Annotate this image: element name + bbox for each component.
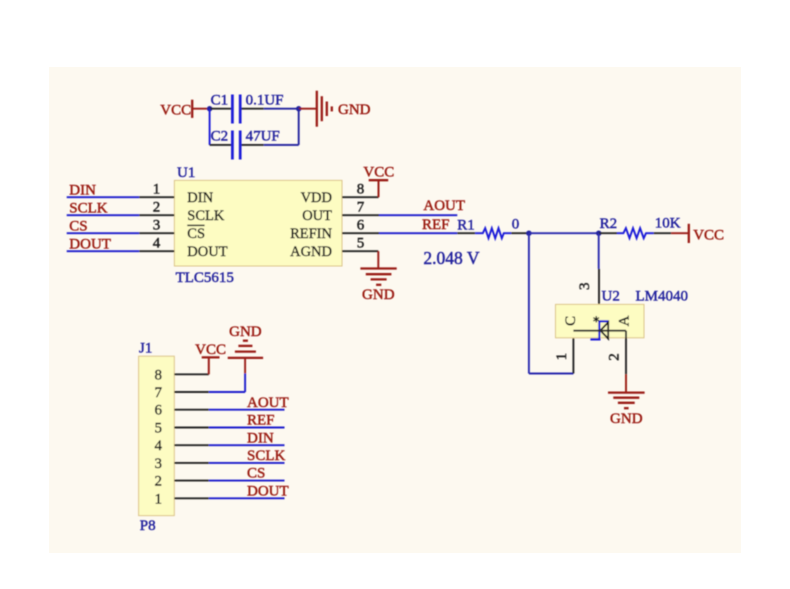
wire node R2 down [598,233,600,269]
pin 1 J1 [155,491,209,507]
svg-text:R2: R2 [600,216,618,232]
node AOUT net (J1) [209,395,289,411]
wire C2 to right vertical [264,144,299,146]
svg-text:2.048 V: 2.048 V [423,248,479,268]
svg-text:7: 7 [357,200,365,216]
power VCC (right) [689,224,724,244]
connector J1 [139,341,175,534]
svg-text:OUT: OUT [302,208,332,224]
svg-text:3: 3 [155,456,163,472]
power VCC (top-left) [160,100,192,119]
svg-text:C: C [563,316,579,326]
wire pin5 down (red) [377,251,379,268]
svg-text:CS: CS [247,466,265,482]
ground (below U2) [608,393,645,427]
svg-text:VCC: VCC [195,342,226,358]
resistor R2 [599,216,672,238]
svg-text:2: 2 [153,200,161,216]
svg-text:VCC: VCC [363,165,394,181]
capacitor C1 [211,93,241,124]
wire right vertical up to node [298,109,300,145]
wire node to C1 left plate [210,108,232,110]
wire left vertical to C2 branch [209,109,211,145]
svg-text:3: 3 [577,283,593,291]
pin 4 U1 [139,236,174,252]
svg-text:DIN: DIN [69,182,96,198]
wire to right node [264,108,299,110]
svg-text:6: 6 [155,403,163,419]
wire to U2 pin1 (horizontal) [529,373,574,375]
svg-text:3: 3 [153,218,161,234]
pin 3 U1 [139,218,174,234]
svg-text:DOUT: DOUT [69,236,111,252]
pin 5 J1 [155,421,209,437]
svg-text:C1: C1 [211,93,229,109]
node DIN net (left) [67,182,140,198]
node junction right of C1 [296,106,301,111]
wire pin7 to ground riser [209,358,245,392]
pin names U1 left side [187,190,227,260]
svg-text:GND: GND [338,102,371,118]
svg-text:10K: 10K [655,216,681,232]
node DOUT net (J1) [209,483,289,499]
pin 1 U1 [139,182,174,198]
power VCC (pin 8) [363,165,394,198]
svg-text:P8: P8 [140,518,156,534]
svg-text:5: 5 [155,421,163,437]
svg-text:SCLK: SCLK [69,200,108,216]
wire node 0 to node R2 [529,232,599,234]
zener cathode bar [590,321,608,339]
pin 3 U2 [577,269,599,322]
svg-text:U2: U2 [602,288,620,304]
wire node to GND (red) [299,108,317,110]
svg-text:DOUT: DOUT [247,483,289,499]
svg-text:REF: REF [422,217,450,233]
svg-text:0: 0 [512,216,520,232]
power VCC (J1) [195,342,226,374]
diode U2 (LM4040 body) [556,288,645,338]
svg-text:U1: U1 [177,165,195,181]
node REF net [379,217,457,233]
svg-text:GND: GND [229,324,262,340]
svg-text:2: 2 [607,353,623,361]
svg-text:A: A [617,315,633,326]
svg-text:AOUT: AOUT [247,395,289,411]
svg-text:2: 2 [155,474,163,490]
svg-text:6: 6 [357,218,365,234]
pin 2 J1 [155,474,209,490]
node CS net (J1) [209,466,285,482]
node above U2 [596,231,601,236]
pin names U1 right side [290,190,332,260]
svg-text:LM4040: LM4040 [636,288,689,304]
wire C2 right plate [242,144,264,146]
ground (inverted, J1) [228,324,263,358]
svg-text:REFIN: REFIN [290,226,332,242]
pin 8 U1 (VDD) [342,182,379,198]
svg-text:VDD: VDD [301,190,332,206]
svg-text:CS: CS [69,218,87,234]
wire R2 to VCC (red) [671,232,689,234]
svg-text:SCLK: SCLK [187,208,225,224]
ground (below U1) [360,269,396,304]
capacitor C2 [211,128,241,159]
pin 6 J1 [155,403,209,419]
zener asterisk [593,316,599,322]
pin 2 U2 [607,331,627,375]
pin 1 U2 [554,331,574,374]
svg-text:C2: C2 [211,128,229,144]
pin 7 J1 [155,385,209,401]
pin 8 J1 [155,367,209,383]
wire pin2 to ground (red) [625,374,627,392]
svg-text:TLC5615: TLC5615 [176,270,234,286]
node SCLK net (J1) [209,448,286,464]
pin 6 U1 (REFIN) [342,218,379,234]
pin 2 U1 [139,200,174,216]
svg-text:DIN: DIN [247,430,274,446]
svg-text:0.1UF: 0.1UF [246,93,284,109]
svg-text:SCLK: SCLK [247,448,286,464]
node REF net (J1) [209,413,285,429]
svg-text:1: 1 [155,491,163,507]
ground (sideways, top) [317,91,371,127]
svg-text:DIN: DIN [187,190,213,206]
wire through diode [573,330,626,332]
svg-text:7: 7 [155,385,163,401]
node DOUT net (left) [67,236,140,252]
svg-text:AGND: AGND [290,244,332,260]
svg-text:47UF: 47UF [246,128,280,144]
node SCLK net (left) [67,200,140,216]
svg-text:5: 5 [357,236,365,252]
resistor R1 [457,218,529,239]
diode triangle [600,322,608,338]
svg-text:VCC: VCC [160,103,191,119]
wire VCC to node (red) [191,108,210,110]
svg-text:4: 4 [153,236,161,252]
svg-text:1: 1 [153,182,161,198]
wire to C2 left plate [210,144,232,146]
svg-text:DOUT: DOUT [187,244,227,260]
svg-text:8: 8 [155,367,163,383]
wire C1 right plate to blue [242,108,264,110]
node AOUT net [379,198,465,215]
svg-text:CS: CS [187,226,205,242]
node CS net (left) [67,218,140,234]
node junction left of C1 [207,106,212,111]
svg-text:VCC: VCC [693,228,724,244]
pin 4 J1 [155,438,209,454]
svg-text:R1: R1 [457,218,475,234]
svg-text:AOUT: AOUT [423,198,465,214]
svg-text:8: 8 [357,182,365,198]
svg-text:GND: GND [362,287,395,303]
svg-text:J1: J1 [139,341,152,357]
pin 7 U1 (OUT) [342,200,379,216]
node DIN net (J1) [209,430,285,446]
svg-text:1: 1 [554,353,570,361]
wire node 0 down [528,233,530,373]
pin 3 J1 [155,456,209,472]
IC U1 TLC5615 [174,165,342,286]
svg-text:REF: REF [247,413,275,429]
node 0 [512,216,532,236]
svg-text:GND: GND [610,411,643,427]
svg-text:4: 4 [155,438,163,454]
pin 5 U1 (AGND) [342,236,378,252]
